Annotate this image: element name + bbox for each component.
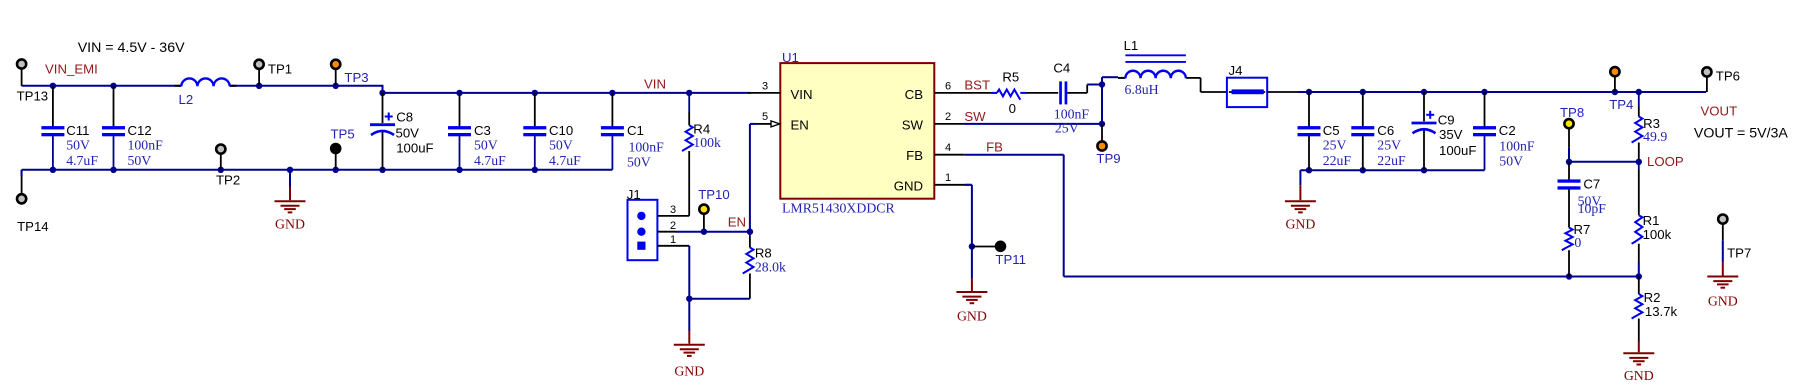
- pin 4 (FB) of U1: [934, 154, 965, 156]
- node: junction SW rail / riser: [1099, 121, 1105, 127]
- wire: C4 to SW node: [1067, 92, 1087, 94]
- svg-text:25V: 25V: [1055, 121, 1079, 136]
- capacitor C4 (bootstrap): [1059, 81, 1067, 104]
- wire: VOUT rail from J4 to TP6 corner: [1267, 91, 1300, 93]
- capacitor C6: [1362, 92, 1364, 127]
- test point TP2: [220, 154, 222, 170]
- resistor R1: [1638, 162, 1640, 170]
- svg-text:J4: J4: [1229, 63, 1243, 78]
- svg-text:25V: 25V: [1377, 137, 1401, 152]
- capacitor C10: [534, 93, 536, 127]
- ground symbol (output caps): [1299, 170, 1301, 185]
- test point TP6: [1706, 77, 1708, 92]
- wire: ground bus below R8: [689, 298, 750, 300]
- capacitor C1: [611, 93, 613, 127]
- svg-text:TP1: TP1: [268, 62, 292, 77]
- capacitor C11: [52, 86, 54, 127]
- node: junction C2 top: [1481, 89, 1487, 95]
- test point TP1: [258, 69, 260, 86]
- svg-text:SW: SW: [902, 117, 924, 132]
- node: junction C6 top: [1360, 89, 1366, 95]
- svg-text:LMR51430XDDCR: LMR51430XDDCR: [782, 201, 895, 216]
- svg-text:TP9: TP9: [1096, 151, 1120, 166]
- op-amp U1 regulator LMR51430XDDCR body: [780, 63, 934, 199]
- svg-text:50V: 50V: [396, 126, 420, 141]
- svg-text:50V: 50V: [1499, 153, 1523, 168]
- resistor R3: [1638, 92, 1640, 107]
- resistor R2: [1638, 277, 1640, 295]
- wire: R5 to C4: [1026, 92, 1058, 94]
- svg-text:2: 2: [670, 220, 676, 232]
- resistor R4: [688, 93, 690, 112]
- svg-text:C6: C6: [1377, 123, 1394, 138]
- svg-text:BST: BST: [964, 78, 990, 93]
- node: junction C9 top: [1421, 89, 1427, 95]
- capacitor C12: [113, 86, 115, 127]
- node: junction C1 top: [609, 90, 615, 96]
- test point TP3: [335, 69, 337, 86]
- svg-text:TP13: TP13: [17, 88, 49, 103]
- svg-text:GND: GND: [1708, 294, 1738, 309]
- svg-text:TP8: TP8: [1560, 105, 1584, 120]
- pin 2 (SW) of U1: [934, 123, 963, 125]
- wire: U1 GND pin to ground: [971, 185, 973, 247]
- svg-text:VIN: VIN: [644, 77, 666, 92]
- test point TP5: [335, 152, 337, 170]
- pin 3 of J1: [657, 215, 689, 217]
- capacitor C8 (polarized): [382, 93, 384, 123]
- node: junction TP11: [969, 243, 975, 249]
- wire: SW node riser to L1: [1101, 85, 1103, 124]
- inductor L1: [1118, 77, 1125, 79]
- node: junction R3 top: [1636, 89, 1642, 95]
- wire: output ground rail: [1300, 169, 1484, 171]
- svg-text:FB: FB: [986, 140, 1003, 155]
- test point TP13: [21, 69, 23, 86]
- inductor L2: [175, 85, 182, 87]
- capacitor C5: [1308, 92, 1310, 127]
- svg-text:U1: U1: [782, 50, 799, 65]
- svg-text:100k: 100k: [1643, 227, 1672, 242]
- svg-text:2: 2: [945, 111, 951, 123]
- node: junction J1 pin1 / R8 ground: [686, 296, 692, 302]
- svg-text:VIN = 4.5V - 36V: VIN = 4.5V - 36V: [78, 40, 185, 56]
- svg-text:EN: EN: [791, 117, 809, 132]
- svg-text:4.7uF: 4.7uF: [474, 153, 506, 168]
- wire: VIN rail from C8 node to U1 VIN pin: [383, 92, 751, 94]
- test point TP7: [1718, 215, 1727, 224]
- node: junction C12 bottom: [110, 167, 116, 173]
- capacitor C9 (polarized): [1423, 92, 1425, 121]
- svg-text:100uF: 100uF: [1439, 143, 1476, 158]
- svg-text:EN: EN: [728, 214, 746, 229]
- ground symbol (R2): [1638, 341, 1640, 352]
- svg-text:GND: GND: [894, 179, 923, 194]
- test point TP11: [972, 246, 996, 248]
- svg-text:C9: C9: [1438, 113, 1455, 128]
- svg-text:35V: 35V: [1439, 127, 1463, 142]
- svg-text:TP6: TP6: [1716, 69, 1740, 84]
- wire: J1 pin1 to ground bus: [688, 246, 690, 299]
- svg-text:GND: GND: [275, 217, 305, 232]
- svg-text:13.7k: 13.7k: [1645, 304, 1678, 319]
- svg-text:6.8uH: 6.8uH: [1125, 82, 1159, 97]
- svg-text:100uF: 100uF: [396, 141, 433, 156]
- resistor R5: [991, 92, 997, 94]
- svg-text:50V: 50V: [474, 137, 498, 152]
- node: LOOP node junction (R3 bottom): [1636, 159, 1642, 165]
- svg-text:50V: 50V: [549, 137, 573, 152]
- svg-text:C4: C4: [1053, 61, 1070, 76]
- svg-text:TP11: TP11: [995, 252, 1026, 267]
- test point TP14: [21, 170, 23, 195]
- pin 2 of J1: [657, 231, 676, 233]
- node: junction C3 bottom: [456, 167, 462, 173]
- node: junction TP8 / C7 top: [1566, 159, 1572, 165]
- svg-text:GND: GND: [1285, 217, 1315, 232]
- ground symbol (J1 / R8): [688, 299, 690, 331]
- svg-text:6: 6: [945, 81, 951, 93]
- test point TP10: [703, 214, 705, 232]
- wire: bottom ground rail (input section): [22, 169, 613, 171]
- node: junction C11 bottom: [50, 167, 56, 173]
- svg-text:VIN: VIN: [791, 87, 813, 102]
- resistor R8: [749, 232, 751, 237]
- svg-text:R8: R8: [755, 246, 772, 261]
- node: EN node junction (TP10): [701, 229, 707, 235]
- node: junction C3 top: [456, 90, 462, 96]
- connector J1: [628, 200, 658, 260]
- connector J4 (shunt jumper): [1229, 91, 1265, 93]
- pin 5 (EN) of U1 with input arrow: [757, 123, 771, 125]
- svg-text:CB: CB: [905, 87, 924, 102]
- svg-text:VOUT: VOUT: [1701, 104, 1738, 119]
- svg-text:3: 3: [670, 204, 676, 216]
- svg-text:50V: 50V: [627, 155, 651, 170]
- pin 3 (VIN) of U1: [748, 92, 780, 94]
- svg-text:50V: 50V: [66, 137, 90, 152]
- svg-text:TP7: TP7: [1727, 246, 1751, 261]
- svg-text:1: 1: [945, 172, 951, 184]
- wire: L1 to J4: [1186, 77, 1201, 79]
- node: junction C5 top: [1306, 89, 1312, 95]
- node: EN node junction (R8 top): [747, 229, 753, 235]
- node: junction TP3 on VIN_EMI rail: [333, 83, 339, 89]
- svg-text:L1: L1: [1124, 38, 1139, 53]
- node: junction C8 top / VIN rail: [379, 90, 385, 96]
- wire: VIN_EMI top rail from TP13 to corner at C8 column: [22, 85, 182, 87]
- svg-text:GND: GND: [957, 309, 987, 324]
- node: junction C4 / SW riser: [1099, 81, 1105, 87]
- svg-text:J1: J1: [627, 187, 641, 202]
- svg-text:TP5: TP5: [331, 127, 355, 142]
- svg-text:4.7uF: 4.7uF: [549, 153, 581, 168]
- node: junction C11 top on VIN_EMI rail: [50, 83, 56, 89]
- svg-text:100nF: 100nF: [1054, 106, 1090, 121]
- svg-text:1: 1: [670, 234, 676, 246]
- svg-text:FB: FB: [906, 148, 923, 163]
- pin 6 (CB) of U1: [934, 92, 997, 94]
- test point TP4: [1614, 76, 1616, 92]
- capacitor C2: [1484, 92, 1486, 127]
- node: junction C10 top: [532, 90, 538, 96]
- svg-text:100k: 100k: [693, 135, 721, 150]
- ground symbol (input filter): [289, 170, 291, 187]
- svg-text:SW: SW: [964, 109, 986, 124]
- svg-text:C5: C5: [1323, 123, 1340, 138]
- node: junction C6 bottom: [1360, 167, 1366, 173]
- svg-text:TP3: TP3: [344, 70, 368, 85]
- svg-text:C11: C11: [66, 123, 89, 138]
- wire: FB pin to feedback bus: [965, 154, 1064, 156]
- svg-text:50V: 50V: [128, 153, 152, 168]
- svg-text:TP14: TP14: [17, 219, 49, 234]
- node: junction C9 bottom: [1421, 167, 1427, 173]
- ground symbol (TP7): [1722, 262, 1724, 275]
- svg-text:25V: 25V: [1323, 137, 1347, 152]
- svg-text:C1: C1: [627, 123, 644, 138]
- node: junction C12 top on VIN_EMI rail: [110, 83, 116, 89]
- node: junction TP4: [1612, 89, 1618, 95]
- svg-text:49.9: 49.9: [1643, 129, 1667, 144]
- svg-text:22uF: 22uF: [1377, 153, 1406, 168]
- svg-text:R5: R5: [1002, 70, 1019, 85]
- svg-text:C10: C10: [549, 123, 573, 138]
- svg-text:LOOP: LOOP: [1647, 154, 1684, 169]
- svg-text:TP10: TP10: [698, 187, 730, 202]
- svg-text:C7: C7: [1583, 177, 1600, 192]
- pin 1 of J1: [657, 245, 689, 247]
- svg-text:VOUT = 5V/3A: VOUT = 5V/3A: [1694, 126, 1789, 142]
- svg-text:L2: L2: [179, 92, 194, 107]
- svg-text:C12: C12: [128, 123, 152, 138]
- resistor R7: [1562, 228, 1573, 251]
- svg-text:4.7uF: 4.7uF: [66, 153, 98, 168]
- svg-text:R2: R2: [1644, 290, 1661, 305]
- svg-text:C8: C8: [396, 109, 413, 124]
- svg-text:22uF: 22uF: [1323, 153, 1352, 168]
- node: junction TP1 on VIN_EMI rail: [256, 83, 262, 89]
- node: junction R1/R2 on feedback bus: [1636, 273, 1642, 279]
- svg-text:GND: GND: [674, 363, 704, 378]
- wire: EN pin to EN node: [749, 124, 751, 232]
- svg-text:C2: C2: [1499, 123, 1516, 138]
- svg-text:3: 3: [762, 81, 768, 93]
- node: junction ground stub bottom rail: [287, 167, 293, 173]
- ground symbol (U1 GND pin): [971, 279, 973, 291]
- svg-text:28.0k: 28.0k: [755, 260, 786, 275]
- svg-text:R1: R1: [1643, 213, 1660, 228]
- svg-text:VIN_EMI: VIN_EMI: [45, 62, 98, 77]
- node: junction R7 bottom on feedback bus: [1566, 273, 1572, 279]
- test point TP9: [1101, 124, 1103, 142]
- node: junction C8 bottom: [379, 167, 385, 173]
- node: junction TP5 bottom rail: [333, 167, 339, 173]
- node: junction R4 top: [686, 90, 692, 96]
- svg-text:4: 4: [945, 142, 951, 154]
- svg-text:0: 0: [1574, 235, 1581, 250]
- node: junction TP2 bottom rail: [218, 167, 224, 173]
- svg-text:100nF: 100nF: [128, 137, 164, 152]
- test point TP8: [1568, 128, 1570, 147]
- pin 1 (GND) of U1: [934, 184, 971, 186]
- svg-text:0: 0: [1009, 101, 1016, 116]
- svg-text:100nF: 100nF: [629, 139, 665, 154]
- svg-text:TP2: TP2: [216, 172, 240, 187]
- svg-text:5: 5: [762, 111, 768, 123]
- svg-text:C3: C3: [474, 123, 491, 138]
- capacitor C7: [1568, 162, 1570, 180]
- svg-text:100nF: 100nF: [1499, 138, 1535, 153]
- node: junction C5 bottom: [1306, 167, 1312, 173]
- node: junction C10 bottom: [532, 167, 538, 173]
- svg-text:10pF: 10pF: [1578, 201, 1607, 216]
- wire: LOOP node to TP8/C7 branch: [1569, 161, 1639, 163]
- svg-text:TP4: TP4: [1609, 97, 1633, 112]
- svg-text:GND: GND: [1624, 368, 1654, 383]
- capacitor C3: [459, 93, 461, 127]
